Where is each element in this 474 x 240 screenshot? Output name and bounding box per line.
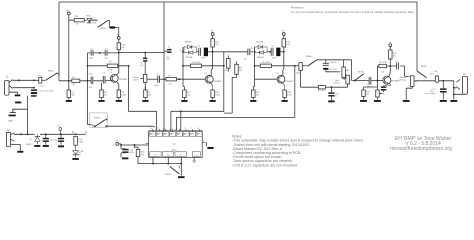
arrow into pot A (339, 71, 341, 72)
wire C25 leads (60, 134, 62, 145)
wire Q3 emitter (282, 83, 285, 90)
svg-text:C6: C6 (156, 74, 158, 76)
capacitor C20 dark (323, 68, 328, 70)
wire pin 180.8 drop (180, 111, 182, 129)
ground D4 (34, 145, 40, 147)
svg-text:-C15 & C17 capacitors are not: -C15 & C17 capacitors are not mounted (232, 163, 297, 167)
capacitor C9 (271, 48, 273, 56)
svg-text:R21 10k: R21 10k (318, 90, 325, 92)
wire stage2 routing (171, 52, 224, 112)
wire C3 stub (164, 50, 167, 52)
wire C8 to loop (250, 51, 253, 53)
junction R26 top (75, 133, 77, 135)
arrow pin d (180, 129, 181, 131)
svg-text:100k log: 100k log (399, 79, 406, 81)
wire R22b gnd lead (363, 97, 365, 100)
switch SW3A lever (307, 60, 316, 66)
svg-text:100R: 100R (215, 95, 220, 97)
wire R6 top lead (101, 83, 103, 90)
wire FB3 to R14 node (280, 51, 283, 53)
wire input bias row (59, 80, 88, 82)
junction stage2 base row (182, 65, 184, 67)
wire +v stage4 lead (389, 47, 391, 50)
input jack J1 (5, 76, 9, 95)
wire output row (416, 80, 454, 82)
junction input dot2 (33, 79, 35, 81)
resistor R6 (100, 90, 108, 98)
capacitor C17 (440, 88, 447, 92)
resistor R16f (227, 58, 231, 68)
wire C4 riser (144, 53, 146, 58)
potentiometer TONE B (342, 75, 349, 84)
wire stage1 left column (87, 53, 89, 81)
wire SW2B right drop (351, 60, 353, 81)
ground volume (403, 100, 410, 102)
ground J2 sleeve (17, 151, 23, 153)
junction stage3 out (294, 65, 296, 67)
wire Q3 collector (282, 52, 285, 76)
wire pin c drop (170, 111, 172, 129)
arrow pin a (155, 129, 156, 131)
wire R28 to LED1 (84, 19, 87, 21)
svg-text:7: 7 (191, 128, 192, 130)
wire Q4 base (377, 80, 384, 82)
capacitor C24 (43, 138, 49, 142)
wire SW2A ground lead (180, 164, 182, 176)
wire R14 bottom (283, 47, 285, 52)
wire FB4 to +v node (115, 28, 119, 37)
wire input top (13, 79, 39, 81)
diode pair D3 D4 (255, 45, 268, 54)
wire Q1 collector (116, 53, 119, 76)
wire trim feed (376, 81, 378, 90)
LED LED1 (86, 15, 96, 24)
junction jack ring (453, 93, 455, 95)
ground under resistor R19 (282, 100, 288, 102)
junction DC dot1 (20, 133, 22, 135)
resistor R12 (190, 64, 201, 67)
svg-text:MPSA18: MPSA18 (214, 80, 223, 83)
junction input dot1 (18, 79, 20, 81)
svg-text:C18: C18 (434, 71, 437, 73)
wire LED1 to SW3B (89, 20, 98, 23)
resistor R19 (283, 90, 293, 98)
power net +v IC (115, 141, 118, 146)
junction output node (442, 80, 444, 82)
wire rail right drop (416, 2, 418, 71)
resistor tone input box (296, 63, 303, 75)
IC IC1 top pin cells (150, 132, 202, 137)
svg-text:1N914B: 1N914B (185, 42, 193, 44)
svg-text:100R: 100R (121, 95, 126, 97)
text notes block (232, 135, 363, 168)
svg-text:100R: 100R (78, 142, 83, 144)
wire Q1 emitter to R8 (117, 82, 119, 90)
IC IC1 4066 body (149, 131, 203, 158)
wire stage1 node routing (129, 66, 157, 130)
wire Q4 emitter (384, 83, 391, 86)
junction +v bias tap (68, 80, 70, 82)
wire IC bottom pin i (152, 157, 154, 163)
wire top bypass rail (59, 1, 417, 3)
wire IC pin7 down (193, 157, 195, 160)
ground under resistor R17 (250, 100, 256, 102)
wire R18 leads (236, 61, 238, 77)
svg-text:4066: 4066 (172, 149, 178, 151)
svg-text:10k: 10k (239, 70, 242, 72)
capacitor C16 (328, 92, 334, 96)
wire resistor R19 gnd lead (284, 98, 286, 100)
resistor R8e (117, 90, 127, 98)
junction C25 top (60, 133, 62, 135)
junction loop left stage2 (182, 51, 184, 53)
svg-text:C19 3n3: C19 3n3 (330, 62, 337, 64)
ground under resistor R8e (116, 100, 122, 102)
wire stage1 column down (87, 81, 89, 104)
svg-text:Red: Red (93, 22, 97, 24)
power net +v stage2 (211, 31, 214, 36)
svg-text:SW1A: SW1A (48, 70, 54, 73)
wire stage3 routing (176, 66, 294, 130)
capacitor C10 (91, 77, 93, 85)
ferrite bead FB4 (110, 26, 115, 28)
arrow pin mid drop (163, 129, 164, 131)
jack J1 ring contact (9, 85, 13, 88)
svg-text:10n C20: 10n C20 (330, 69, 337, 71)
transistor Q1 (110, 75, 118, 83)
ground under resistor R7 (142, 100, 148, 102)
connector arrow b (85, 132, 86, 134)
wire into SW2B (88, 104, 92, 124)
wire sustain out (147, 78, 158, 80)
wire R7 top lead (144, 87, 146, 90)
svg-text:9: 9 (177, 128, 178, 130)
svg-text:R9: R9 (72, 77, 74, 79)
capacitor C26 (122, 149, 128, 153)
svg-text:FB3: FB3 (272, 57, 275, 59)
wire resistor R7 gnd lead (144, 98, 146, 100)
svg-text:C8: C8 (244, 58, 246, 60)
svg-text:D3: D3 (251, 48, 253, 50)
wire IC right pin down (205, 143, 207, 147)
capacitor C8 (248, 49, 250, 56)
svg-text:100k B: 100k B (133, 80, 140, 82)
wire emitter bias leads (364, 87, 384, 92)
resistor R16e (211, 90, 221, 98)
capacitor C3 on mid drop (167, 49, 171, 53)
svg-text:Revisions: Revisions (291, 5, 304, 9)
wire battery to column (13, 109, 28, 112)
svg-text:0.1 0.2: Corrected wiring, co: 0.1 0.2: Corrected wiring, connection be… (291, 10, 414, 14)
switch SW2A contact arc (179, 166, 180, 169)
IC IC1 bottom pin cells (150, 152, 201, 157)
svg-text:MPSA18: MPSA18 (285, 80, 294, 83)
junction stage4 supply (389, 65, 391, 67)
svg-text:SW3A: SW3A (306, 55, 312, 58)
junction input lower (33, 87, 35, 89)
switch SW2B lever (95, 120, 105, 127)
switch SW3B lever (98, 20, 108, 27)
svg-text:1N914B: 1N914B (256, 42, 264, 44)
resistor R26 (74, 136, 84, 145)
junction after R8 (178, 78, 180, 80)
junction bottom rail 1 (152, 163, 154, 165)
svg-text:8: 8 (184, 128, 185, 130)
ground C16 (328, 100, 334, 102)
svg-text:SW2B: SW2B (94, 118, 100, 120)
wire resistor R6 gnd lead (101, 98, 103, 100)
wire R21s bottom (389, 59, 391, 66)
wire jack sleeve (9, 92, 18, 94)
ferrite bead FB2 (204, 48, 208, 57)
junction SW2B in (94, 125, 96, 127)
wire footswitch to IC (107, 125, 153, 127)
wire resistor R16e gnd lead (212, 98, 214, 100)
wire rail mid drop to IC (163, 2, 165, 131)
svg-text:SW2A: SW2A (165, 173, 171, 176)
LED emission arrows (78, 152, 80, 155)
junction C16 top (330, 86, 332, 88)
capacitor C14 (105, 50, 107, 55)
svg-text:100k lin: 100k lin (333, 83, 340, 85)
svg-text:MPSA18: MPSA18 (119, 78, 128, 81)
ferrite bead FB3 (276, 48, 280, 57)
wire R10 to collector node (118, 50, 120, 53)
wire R18 down routing (224, 77, 237, 113)
ground SW2A (178, 176, 185, 178)
transistor Q3 (277, 75, 285, 83)
resistor R7 (144, 90, 152, 98)
svg-text:LED: LED (80, 151, 84, 153)
wire DC rail (14, 133, 76, 135)
battery BAT1 (8, 110, 16, 123)
ground under resistor R1 (66, 100, 72, 102)
svg-text:not mounted: not mounted (424, 92, 435, 95)
resistor R13b (260, 64, 271, 67)
wire stage2 R12 row (183, 65, 224, 67)
capacitor C15 (31, 93, 37, 97)
resistor R10 (117, 43, 126, 50)
capacitor C4 (143, 58, 147, 62)
wire SW3B to FB4 (108, 20, 110, 27)
ground bar right of IC (207, 147, 213, 149)
svg-text:3: 3 (178, 160, 179, 162)
wire rail left drop (58, 2, 60, 81)
wire tone low left (301, 70, 319, 87)
junction C24 top (45, 133, 47, 135)
wire +v to R10 (118, 39, 120, 42)
wire resistor R8e gnd lead (118, 98, 120, 100)
resistor R25 (136, 149, 145, 156)
wire C24 leads (45, 134, 47, 144)
capacitor C5 (199, 48, 201, 56)
wire to jack J3 (454, 88, 463, 95)
capacitor C22 (369, 77, 371, 84)
wire base feed stage1 (88, 65, 129, 67)
arrow pin c (170, 129, 171, 131)
ground C17 (440, 100, 447, 102)
capacitor C7 (103, 76, 105, 84)
wire jack J3 feed (453, 81, 455, 95)
junction C4 tap (144, 52, 146, 54)
svg-text:100n: 100n (154, 85, 158, 87)
connector pin +9v (57, 126, 62, 135)
ground under resistor R16e (210, 100, 216, 102)
svg-text:R20 470k: R20 470k (379, 62, 387, 64)
ferrite bead FB1 box (38, 76, 43, 84)
ground under resistor R15 (181, 100, 187, 102)
junction loop left stage3 (254, 51, 256, 53)
junction between C13 C14 (99, 52, 101, 54)
LED power indicator (73, 145, 85, 157)
transistor Q2 (205, 75, 213, 83)
wire sustain bottom (144, 82, 146, 90)
wire +v entry to R28 (69, 15, 74, 90)
wire cap row stage1 (88, 52, 119, 54)
junction jack tip (453, 87, 455, 89)
svg-text:R16: R16 (224, 70, 227, 72)
svg-text:1N914B: 1N914B (185, 57, 193, 59)
IC IC1 left pin stub (145, 143, 148, 145)
junction tone out (354, 80, 356, 82)
junction routing at 180.8 (180, 110, 182, 112)
ground under resistor R6 (98, 100, 104, 102)
wire input lower (13, 87, 34, 89)
wire Q2 emitter (210, 83, 212, 90)
junction SW2B out (105, 125, 107, 127)
power net +v stage4 (388, 42, 391, 47)
junction C9 left (269, 51, 271, 53)
jack J2 ring contact (11, 139, 15, 141)
switch SW1A lever (45, 73, 57, 81)
ground C25 (58, 145, 64, 147)
svg-text:C10: C10 (89, 73, 92, 75)
junction mid drop at base row (163, 78, 165, 80)
svg-text:D4: D4 (29, 139, 31, 141)
wire loop right to C9 (267, 51, 270, 53)
svg-text:1N914B: 1N914B (257, 57, 265, 59)
svg-text:1k: 1k (383, 94, 385, 96)
resistor R14 (282, 39, 291, 47)
wire C21 to volume (400, 66, 409, 76)
junction R25 top (134, 144, 136, 146)
resistor R15 (183, 90, 192, 98)
svg-text:1u: 1u (335, 96, 337, 98)
wire tone top rail (317, 59, 352, 61)
wire loop right to C5 (197, 51, 199, 53)
potentiometer SUSTAIN (140, 74, 147, 82)
svg-text:2: 2 (165, 160, 166, 162)
wire +v stage3 lead (283, 36, 285, 39)
capacitor C25 (58, 138, 64, 142)
wire IC bottom pin iii (180, 157, 182, 163)
junction stage2 top (212, 51, 214, 53)
wire box to lever (302, 65, 307, 67)
svg-text:mirosol/freestompboxes.org: mirosol/freestompboxes.org (390, 146, 452, 152)
no connect circle (193, 160, 195, 162)
svg-text:12: 12 (157, 128, 159, 130)
wire C17 drop (442, 81, 444, 89)
svg-text:13: 13 (150, 128, 152, 130)
switch SW2B box outline (90, 113, 108, 127)
DC jack J2 (6, 130, 10, 147)
potentiometer tone A (342, 67, 349, 78)
resistor R13 (211, 39, 220, 47)
wire Q4 collector (389, 66, 397, 77)
svg-text:1u: 1u (168, 46, 170, 48)
svg-text:C15 not mounted: C15 not mounted (38, 89, 53, 92)
wire C6 to R8 (160, 78, 167, 80)
capacitor C2 (31, 89, 37, 93)
capacitor C13 (91, 50, 93, 55)
resistor R20 (379, 64, 387, 67)
wire loop left column (183, 47, 184, 90)
ground C24 (43, 145, 49, 147)
wire stage3 base row (255, 78, 279, 80)
svg-text:SW1B: SW1B (421, 66, 427, 68)
junction DC dot2 (27, 133, 29, 135)
wire C20 down (326, 70, 339, 72)
resistor R8s (166, 78, 177, 81)
wire resistor R15 gnd lead (183, 98, 185, 100)
wire battery column (27, 96, 29, 135)
svg-text:1k: 1k (76, 24, 78, 26)
ground jack J1 second (15, 102, 21, 104)
svg-text:6: 6 (203, 141, 204, 143)
IC IC1 top pin stubs and numbers (150, 128, 199, 132)
wire C19 stub (325, 60, 327, 64)
svg-text:100u: 100u (130, 152, 134, 154)
ground C26 (122, 157, 128, 159)
svg-text:1M: 1M (72, 84, 75, 86)
power net +v stage1 (117, 35, 120, 40)
wire FB1 to SW1A (42, 79, 46, 81)
resistor R22b (362, 90, 371, 97)
resistor R18 (235, 64, 239, 74)
wire C17 gnd lead (442, 93, 444, 100)
arrow pin f (154, 126, 156, 127)
wire C26 leads (121, 145, 126, 157)
potentiometer trim 1k (376, 90, 383, 97)
diode pair D1 D2 (184, 45, 197, 54)
wire loop left column stage3 (253, 47, 254, 90)
wire stage2 to stage3 (224, 51, 248, 53)
diode D4 (26, 134, 40, 146)
wire R25 top lead (135, 145, 139, 149)
resistor R21s (389, 50, 398, 59)
switch SW2B tone lever (355, 74, 364, 80)
wire +v stage2 lead (212, 36, 214, 39)
svg-text:+9v: +9v (57, 126, 60, 128)
wire R13 bottom (212, 47, 214, 52)
svg-text:470p: 470p (89, 58, 93, 60)
jack J3 tip contact (456, 79, 460, 82)
connector arrow a (72, 132, 73, 134)
resistor R9 (72, 79, 80, 82)
svg-text:47p: 47p (104, 58, 107, 60)
junction stage1 base feed (87, 65, 89, 67)
junction stage1 route node (128, 65, 130, 67)
svg-text:C2 4u7: C2 4u7 (39, 86, 45, 88)
ground R22b (360, 100, 367, 102)
wire volume bottom drop (406, 86, 412, 99)
wire R25 bottom (138, 157, 148, 164)
wire C4 to pot (144, 62, 146, 75)
transistor Q4 (383, 76, 400, 84)
arrow pin e (175, 129, 176, 131)
switch SW2A lever (170, 166, 180, 174)
junction R12 right (223, 65, 225, 67)
